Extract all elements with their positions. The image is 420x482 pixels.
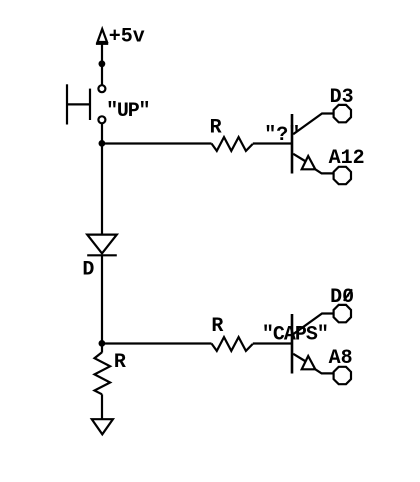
connector pad A12 xyxy=(334,167,351,184)
connector pad D0 xyxy=(334,305,351,322)
power symbol +5V xyxy=(96,29,108,44)
wire upper row to resistor xyxy=(102,142,212,144)
svg-text:+5v: +5v xyxy=(109,26,145,49)
wire lower row to resistor xyxy=(102,342,212,344)
pushbutton S1 "UP" xyxy=(67,84,105,124)
junction node upper row xyxy=(99,140,106,147)
transistor Q2 emitter lead to pad xyxy=(315,369,332,373)
svg-text:"UP": "UP" xyxy=(106,100,149,123)
svg-text:"CAPS": "CAPS" xyxy=(262,324,328,347)
wire diode to lower row xyxy=(101,255,103,352)
wire from switch to diode xyxy=(101,124,103,234)
junction dot top xyxy=(99,60,106,67)
resistor R (lower row) xyxy=(212,337,253,351)
connector pad D3 xyxy=(334,105,351,122)
wire resistor to ground xyxy=(101,394,103,419)
svg-text:R: R xyxy=(211,315,223,338)
connector pad A8 xyxy=(334,367,351,384)
svg-text:"?": "?" xyxy=(264,124,300,147)
wire from +5V to switch xyxy=(101,44,103,85)
resistor R (pulldown) xyxy=(95,352,111,394)
slash of zero in D0 xyxy=(344,289,352,301)
transistor Q1 base bar xyxy=(291,114,294,174)
transistor Q2 collector lead xyxy=(293,314,333,335)
transistor Q1 collector lead xyxy=(293,114,333,135)
transistor Q1 emitter lead xyxy=(293,154,305,161)
junction node lower row xyxy=(99,340,106,347)
wire resistor to transistor base xyxy=(253,142,292,144)
svg-text:D: D xyxy=(82,259,94,282)
diode D xyxy=(87,235,117,256)
svg-text:R: R xyxy=(210,117,222,140)
transistor Q1 emitter arrow xyxy=(302,156,316,169)
transistor Q2 emitter lead xyxy=(293,354,305,361)
transistor Q1 emitter lead to pad xyxy=(315,169,332,173)
svg-text:R: R xyxy=(114,351,126,374)
wire resistor to transistor base lower xyxy=(253,342,292,344)
transistor Q2 emitter arrow xyxy=(302,356,316,369)
ground xyxy=(92,419,113,434)
resistor R (upper) xyxy=(212,137,253,151)
transistor Q2 base bar xyxy=(291,314,294,374)
